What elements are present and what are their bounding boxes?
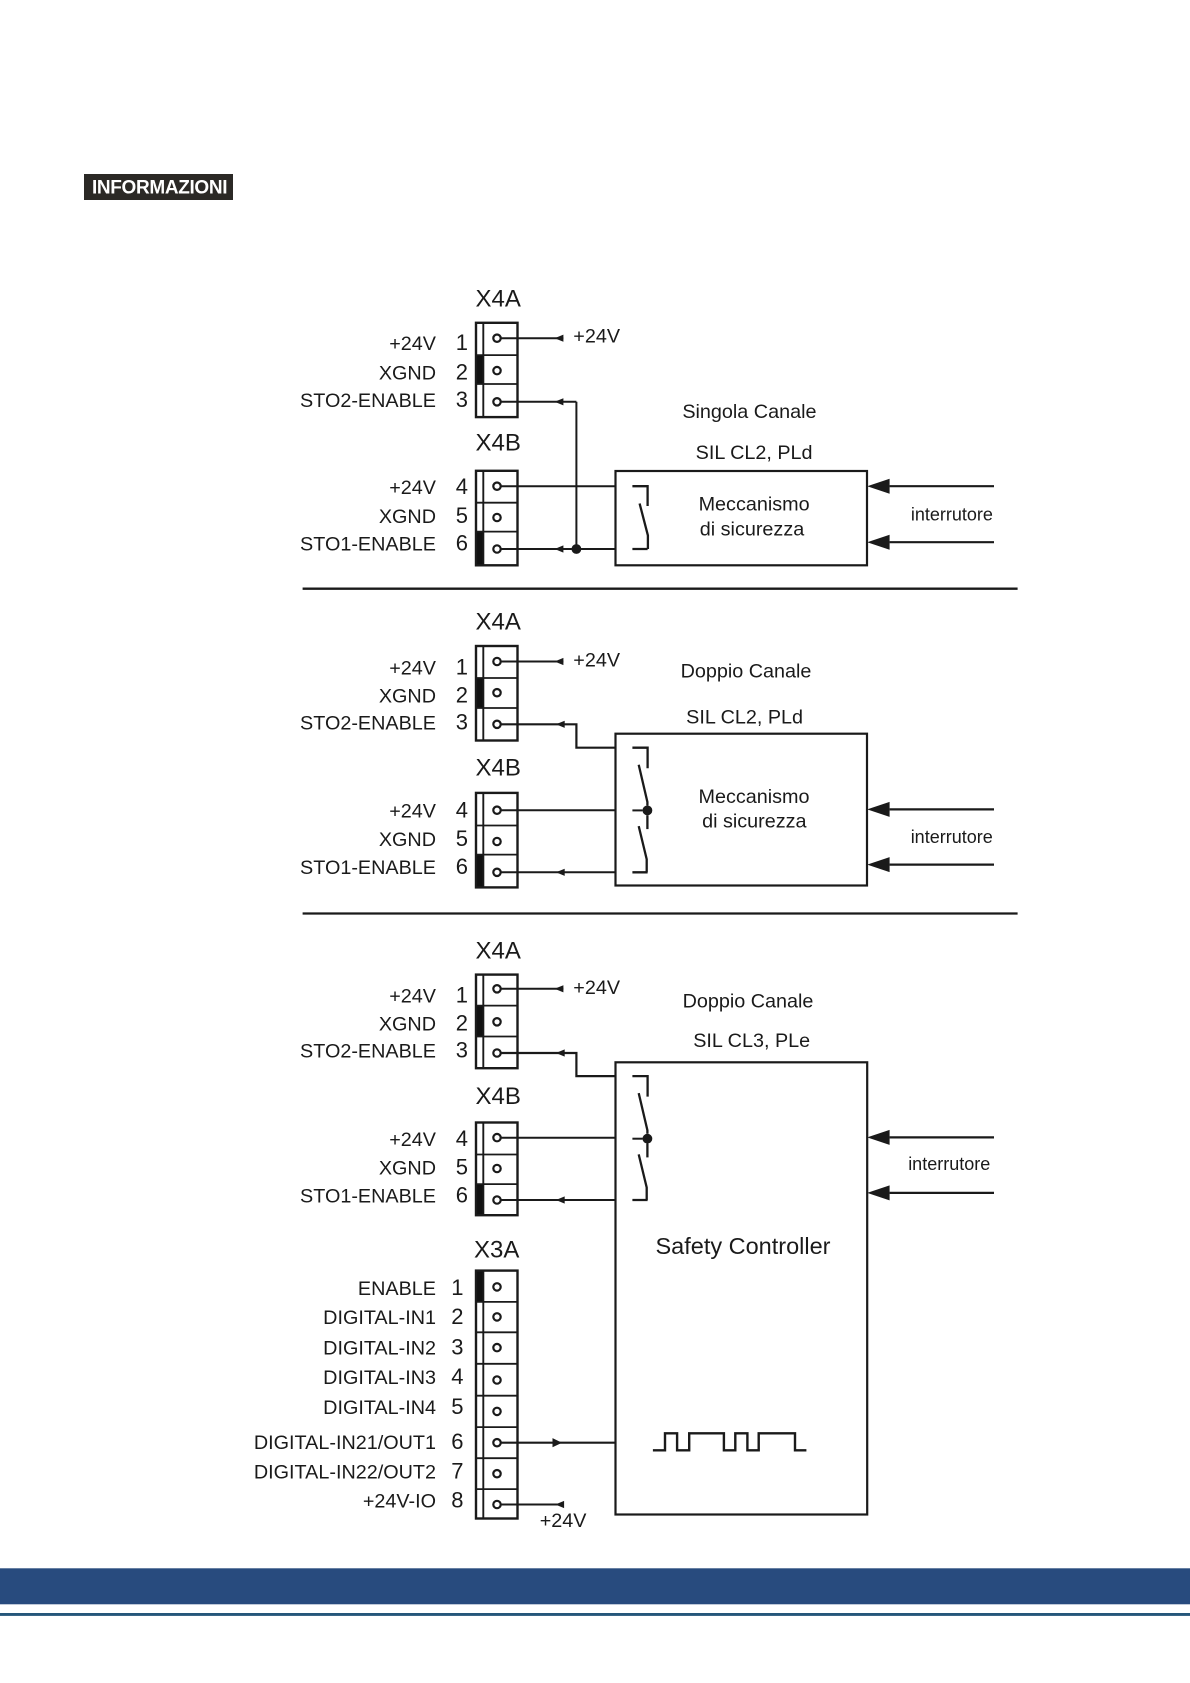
svg-text:5: 5 bbox=[456, 1154, 468, 1179]
svg-text:1: 1 bbox=[456, 983, 468, 1008]
svg-text:4: 4 bbox=[451, 1364, 463, 1389]
svg-text:XGND: XGND bbox=[379, 363, 436, 385]
svg-text:X4B: X4B bbox=[476, 1083, 521, 1110]
section 2: double channel SIL CL2 diagram bbox=[300, 608, 994, 887]
arrow into box upper (section 3) bbox=[867, 1130, 889, 1145]
X4B pin 6 terminal circle bbox=[493, 1196, 500, 1203]
junction node between contacts (section 2) bbox=[643, 806, 653, 816]
svg-text:4: 4 bbox=[456, 1126, 468, 1151]
svg-text:interrutore: interrutore bbox=[911, 827, 993, 847]
svg-text:STO2-ENABLE: STO2-ENABLE bbox=[300, 712, 436, 734]
safety controller box bbox=[616, 1062, 868, 1514]
connector X4B body bbox=[476, 1123, 518, 1216]
safety contact switch S3 lower bbox=[632, 1144, 647, 1201]
svg-text:STO2-ENABLE: STO2-ENABLE bbox=[300, 390, 436, 412]
section 1: single channel diagram bbox=[300, 286, 994, 566]
separator line 2 bbox=[303, 912, 1018, 914]
svg-text:DIGITAL-IN22/OUT2: DIGITAL-IN22/OUT2 bbox=[254, 1462, 436, 1484]
safety mechanism box (section 1) bbox=[616, 471, 868, 565]
interruttore wire upper (section 3) bbox=[890, 1136, 994, 1138]
svg-text:Doppio Canale: Doppio Canale bbox=[683, 991, 814, 1013]
pulse waveform symbol bbox=[653, 1433, 807, 1450]
svg-text:2: 2 bbox=[451, 1304, 463, 1329]
svg-text:ENABLE: ENABLE bbox=[358, 1278, 436, 1300]
wire X4A pin1 to +24V (section 2) bbox=[501, 661, 563, 663]
svg-text:interrutore: interrutore bbox=[911, 505, 993, 525]
svg-text:SIL CL3, PLe: SIL CL3, PLe bbox=[693, 1030, 810, 1052]
svg-text:SIL CL2, PLd: SIL CL2, PLd bbox=[696, 442, 813, 464]
X3A pin 8 terminal circle bbox=[493, 1501, 500, 1508]
svg-text:2: 2 bbox=[456, 683, 468, 708]
svg-text:3: 3 bbox=[456, 387, 468, 412]
svg-text:2: 2 bbox=[456, 1011, 468, 1036]
svg-text:+24V: +24V bbox=[573, 977, 621, 999]
X3A pin 3 terminal circle bbox=[493, 1344, 500, 1351]
X4B pin 4 terminal circle bbox=[493, 483, 500, 490]
svg-text:Safety Controller: Safety Controller bbox=[655, 1233, 830, 1259]
wire X4A pin3 STO2-ENABLE elbow into box (section 3) bbox=[501, 1053, 616, 1076]
arrow into box lower (section 1) bbox=[867, 535, 889, 550]
svg-text:di sicurezza: di sicurezza bbox=[702, 811, 806, 833]
separator line 1 bbox=[303, 588, 1018, 590]
svg-text:+24V-IO: +24V-IO bbox=[363, 1491, 436, 1513]
svg-text:5: 5 bbox=[456, 826, 468, 851]
svg-text:DIGITAL-IN2: DIGITAL-IN2 bbox=[323, 1338, 436, 1360]
svg-text:2: 2 bbox=[456, 360, 468, 385]
X4A pin 1 terminal circle bbox=[493, 985, 500, 992]
connector X3A body bbox=[476, 1271, 518, 1519]
svg-text:DIGITAL-IN4: DIGITAL-IN4 bbox=[323, 1397, 436, 1419]
svg-text:X4A: X4A bbox=[476, 937, 521, 964]
svg-text:6: 6 bbox=[456, 854, 468, 879]
arrow into box upper (section 1) bbox=[867, 479, 889, 494]
svg-text:5: 5 bbox=[456, 503, 468, 528]
wire X4A pin1 to +24V (section 3) bbox=[501, 988, 563, 990]
section 3: double channel SIL CL3 with safety controller bbox=[254, 937, 994, 1532]
arrow on +24V wire (section 3) bbox=[555, 985, 564, 992]
X4B pin 4 terminal circle bbox=[493, 807, 500, 814]
X4A pin 2 terminal circle bbox=[493, 367, 500, 374]
X3A pin 7 terminal circle bbox=[493, 1470, 500, 1477]
X3A pin 2 terminal circle bbox=[493, 1313, 500, 1320]
connector X4A body bbox=[476, 646, 518, 741]
svg-text:3: 3 bbox=[451, 1335, 463, 1360]
svg-text:+24V: +24V bbox=[389, 658, 437, 680]
svg-text:X3A: X3A bbox=[474, 1236, 519, 1263]
svg-text:4: 4 bbox=[456, 474, 468, 499]
X3A pin 6 terminal circle bbox=[493, 1439, 500, 1446]
arrow on pulse output wire bbox=[553, 1438, 563, 1447]
arrow into box lower (section 3) bbox=[867, 1185, 889, 1200]
svg-text:1: 1 bbox=[456, 655, 468, 680]
svg-text:1: 1 bbox=[456, 330, 468, 355]
X4A pin 3 terminal circle bbox=[493, 398, 500, 405]
svg-text:3: 3 bbox=[456, 709, 468, 734]
X4A pin 3 terminal circle bbox=[493, 1049, 500, 1056]
svg-text:6: 6 bbox=[451, 1429, 463, 1454]
X4B pin 5 terminal circle bbox=[493, 838, 500, 845]
junction node STO wires bbox=[572, 544, 582, 554]
X4B pin 6 terminal circle bbox=[493, 869, 500, 876]
arrow on STO1-ENABLE wire (section 3) bbox=[556, 1196, 565, 1203]
interruttore wire lower (section 2) bbox=[890, 863, 994, 865]
svg-text:+24V: +24V bbox=[389, 801, 437, 823]
arrow on +24V wire (section 2) bbox=[555, 658, 564, 665]
svg-text:SIL CL2, PLd: SIL CL2, PLd bbox=[686, 706, 803, 728]
X4A pin 2 terminal circle bbox=[493, 1018, 500, 1025]
interruttore wire lower (section 1) bbox=[890, 541, 994, 543]
connector X4A body bbox=[476, 975, 518, 1069]
safety contact switch S3 upper bbox=[632, 1076, 647, 1134]
interruttore wire upper (section 2) bbox=[890, 808, 994, 810]
arrow on +24V-IO wire bbox=[555, 1501, 564, 1508]
wire X4A pin3 STO2-ENABLE horizontal bbox=[501, 401, 576, 403]
X4B pin 5 terminal circle bbox=[493, 514, 500, 521]
svg-text:+24V: +24V bbox=[389, 333, 437, 355]
svg-text:+24V: +24V bbox=[389, 1129, 437, 1151]
arrow into box upper (section 2) bbox=[867, 802, 889, 817]
svg-text:STO1-ENABLE: STO1-ENABLE bbox=[300, 533, 436, 555]
arrow on +24V wire bbox=[555, 335, 564, 342]
svg-text:interrutore: interrutore bbox=[908, 1154, 990, 1174]
wire X4B pin4 into box (section 3) bbox=[501, 1137, 616, 1139]
svg-text:+24V: +24V bbox=[389, 477, 437, 499]
svg-text:STO1-ENABLE: STO1-ENABLE bbox=[300, 857, 436, 879]
svg-text:DIGITAL-IN1: DIGITAL-IN1 bbox=[323, 1307, 436, 1329]
X4A pin 1 terminal circle bbox=[493, 335, 500, 342]
svg-text:di sicurezza: di sicurezza bbox=[700, 519, 804, 541]
footer thin rule bbox=[0, 1613, 1190, 1616]
connector X4B body bbox=[476, 471, 518, 566]
svg-text:XGND: XGND bbox=[379, 1157, 436, 1179]
svg-text:5: 5 bbox=[451, 1394, 463, 1419]
arrow on STO1-ENABLE wire bbox=[555, 545, 564, 552]
arrow on STO2-ENABLE wire (section 2) bbox=[556, 721, 565, 728]
svg-text:XGND: XGND bbox=[379, 506, 436, 528]
svg-text:DIGITAL-IN21/OUT1: DIGITAL-IN21/OUT1 bbox=[254, 1432, 436, 1454]
wire X4B pin6 STO1-ENABLE into box (section 3) bbox=[501, 1199, 616, 1201]
safety contact switch S2 upper bbox=[632, 748, 647, 806]
arrow into box lower (section 2) bbox=[867, 857, 889, 872]
svg-text:STO2-ENABLE: STO2-ENABLE bbox=[300, 1040, 436, 1062]
svg-text:6: 6 bbox=[456, 530, 468, 555]
svg-text:STO1-ENABLE: STO1-ENABLE bbox=[300, 1186, 436, 1208]
X3A pin 1 terminal circle bbox=[493, 1283, 500, 1290]
svg-text:4: 4 bbox=[456, 798, 468, 823]
center tap wire to node (section 3) bbox=[632, 1138, 642, 1140]
svg-text:X4B: X4B bbox=[476, 429, 521, 456]
X3A pin 5 terminal circle bbox=[493, 1408, 500, 1415]
svg-text:X4B: X4B bbox=[476, 755, 521, 782]
svg-text:DIGITAL-IN3: DIGITAL-IN3 bbox=[323, 1367, 436, 1389]
svg-text:6: 6 bbox=[456, 1183, 468, 1208]
junction node between contacts (section 3) bbox=[643, 1134, 653, 1144]
arrow on STO2-ENABLE wire bbox=[555, 398, 564, 405]
svg-text:7: 7 bbox=[451, 1459, 463, 1484]
wire X3A pin6 pulse output to controller bbox=[501, 1442, 616, 1444]
svg-text:INFORMAZIONI: INFORMAZIONI bbox=[92, 178, 227, 199]
svg-text:XGND: XGND bbox=[379, 1014, 436, 1036]
wire STO2-ENABLE vertical drop to node bbox=[575, 402, 577, 549]
X4A pin 1 terminal circle bbox=[493, 658, 500, 665]
svg-text:XGND: XGND bbox=[379, 686, 436, 708]
interruttore wire lower (section 3) bbox=[890, 1192, 994, 1194]
X4B pin 4 terminal circle bbox=[493, 1134, 500, 1141]
wire X4B pin4 into box (section 2) bbox=[501, 809, 616, 811]
svg-text:Singola Canale: Singola Canale bbox=[682, 401, 816, 423]
connector X4B body bbox=[476, 793, 518, 888]
wire X4B pin6 STO1-ENABLE to safety box bbox=[501, 548, 616, 550]
X4A pin 2 terminal circle bbox=[493, 689, 500, 696]
svg-text:1: 1 bbox=[451, 1275, 463, 1300]
svg-text:3: 3 bbox=[456, 1037, 468, 1062]
wire X3A pin8 to +24V-IO supply bbox=[501, 1504, 564, 1506]
svg-text:X4A: X4A bbox=[476, 286, 521, 313]
wire X4B pin4 to safety box bbox=[501, 485, 616, 487]
svg-text:XGND: XGND bbox=[379, 829, 436, 851]
X4B pin 6 terminal circle bbox=[493, 545, 500, 552]
wire X4B pin6 STO1-ENABLE into box (section 2) bbox=[501, 871, 616, 873]
svg-text:+24V: +24V bbox=[389, 986, 437, 1008]
X4A pin 3 terminal circle bbox=[493, 721, 500, 728]
arrow on STO1-ENABLE wire (section 2) bbox=[556, 869, 565, 876]
svg-text:X4A: X4A bbox=[476, 608, 521, 635]
INFORMAZIONI header tag bbox=[84, 174, 233, 200]
safety mechanism box (section 2) bbox=[616, 734, 868, 886]
interruttore wire upper (section 1) bbox=[890, 485, 994, 487]
X4B pin 5 terminal circle bbox=[493, 1165, 500, 1172]
safety contact switch S2 lower bbox=[632, 815, 647, 872]
svg-text:+24V: +24V bbox=[540, 1510, 588, 1532]
center tap wire to node (section 2) bbox=[632, 809, 642, 811]
wire X4A pin3 STO2-ENABLE elbow into box (section 2) bbox=[501, 724, 616, 747]
safety contact switch S1 bbox=[632, 486, 648, 549]
svg-text:Meccanismo: Meccanismo bbox=[698, 786, 809, 808]
wire X4A pin1 to +24V supply bbox=[501, 337, 563, 339]
arrow on STO2-ENABLE wire (section 3) bbox=[556, 1049, 565, 1056]
svg-text:+24V: +24V bbox=[573, 326, 621, 348]
footer bar bbox=[0, 1568, 1190, 1604]
connector X4A body bbox=[476, 323, 518, 417]
svg-text:8: 8 bbox=[451, 1488, 463, 1513]
svg-text:Doppio Canale: Doppio Canale bbox=[681, 661, 812, 683]
X3A pin 4 terminal circle bbox=[493, 1376, 500, 1383]
svg-text:+24V: +24V bbox=[573, 649, 621, 671]
svg-text:Meccanismo: Meccanismo bbox=[699, 494, 810, 516]
